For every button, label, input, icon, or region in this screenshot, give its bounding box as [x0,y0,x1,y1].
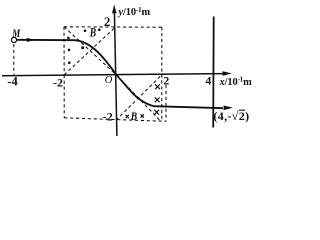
particle M circle [11,37,16,42]
field region bottom edge y=-2 (dashed) [64,118,166,122]
svg-text:O: O [105,75,113,86]
exit arrowhead [224,106,233,111]
trajectory path [16,40,223,108]
dashed diagonal (-2,2) to O [64,27,116,75]
field region left edge x=-2 lower (dashed) [63,75,65,118]
dashed diagonal (-2,0) to (0,2) [64,27,116,75]
field dot 5 [98,29,101,32]
y-axis [112,5,117,137]
field region left edge x=-2 upper (dashed) [63,27,65,75]
svg-text:-2: -2 [103,109,113,123]
field dot 4 [84,29,87,32]
dashed diagonal (0,-2) to (2,0) [116,75,162,120]
screen line at x=4 [212,17,215,128]
svg-text:(4,-√2): (4,-√2) [213,109,249,123]
overbar of sqrt [239,109,245,111]
svg-text:-2: -2 [53,75,63,89]
dashed diagonal O to (2,-2) [116,75,160,121]
x-axis [2,71,232,76]
field dot 3 [68,61,71,64]
field dot 6 [81,46,84,49]
field dot 2 [68,49,71,52]
field region lower-right edge segment (dashed) [165,85,167,121]
svg-text:x/10-1m: x/10-1m [219,77,253,88]
field cross 1 [155,84,160,89]
dashed drop line from M to x-axis [13,44,15,75]
field region top edge y=2 (dashed) [64,26,162,28]
field cross 4 [125,115,128,118]
svg-text:4: 4 [205,74,211,88]
field dot 1 [67,37,70,40]
field region right edge x=2 (dashed) [161,27,163,120]
svg-text:B: B [130,109,137,123]
field cross 3 [154,110,159,115]
field cross 5 [141,114,144,117]
velocity arrowhead on entry segment [27,38,35,42]
svg-text:B: B [89,24,96,39]
field cross 2 [155,97,160,102]
svg-text:-4: -4 [7,74,18,88]
svg-text:y/10-1m: y/10-1m [117,7,151,18]
